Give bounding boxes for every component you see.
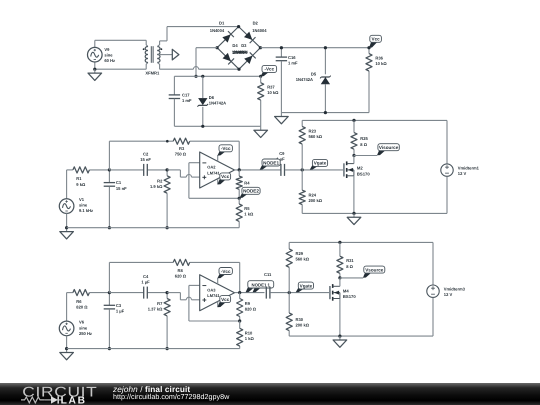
svg-text:R5: R5 bbox=[244, 206, 250, 211]
svg-text:620 Ω: 620 Ω bbox=[175, 274, 187, 279]
svg-text:560 kΩ: 560 kΩ bbox=[296, 257, 310, 262]
node label NODE2 bbox=[240, 187, 261, 198]
node label Vcc (rectifier) bbox=[369, 35, 381, 47]
svg-text:R31: R31 bbox=[346, 258, 354, 263]
resistor R10 (1 kOhm) bbox=[237, 321, 255, 349]
resistor R37 (10 kOhm) bbox=[258, 76, 280, 126]
resistor R25 (8 Ohm) bbox=[351, 120, 369, 155]
diode D4 (1N4004) bridge bottom-left bbox=[217, 43, 239, 69]
capacitor C17 (1 mF) bbox=[169, 76, 192, 126]
svg-text:R10: R10 bbox=[245, 330, 253, 335]
resistor R31 (8 Ohm) bbox=[337, 242, 355, 278]
wire C3 node up to feedback rail bbox=[108, 262, 110, 292]
svg-text:V9: V9 bbox=[104, 47, 110, 52]
diode D3 (1N4004) bridge bottom-right bbox=[232, 43, 261, 69]
svg-text:200 kΩ: 200 kΩ bbox=[296, 323, 310, 328]
wire M2 drain rail top bbox=[302, 119, 447, 122]
capacitor C11 (1 uF) bbox=[266, 287, 270, 299]
MOSFET M2 (BS170) bbox=[343, 156, 370, 214]
svg-text:1 mF: 1 mF bbox=[288, 61, 298, 66]
svg-text:D2: D2 bbox=[253, 21, 259, 26]
svg-text:D1: D1 bbox=[219, 21, 225, 26]
svg-text:10 kΩ: 10 kΩ bbox=[267, 90, 279, 95]
resistor R29 (560 kOhm) bbox=[286, 242, 310, 292]
svg-text:1 µF: 1 µF bbox=[141, 280, 150, 285]
svg-text:Vgate: Vgate bbox=[300, 283, 313, 288]
resistor R30 (200 kOhm) bbox=[286, 293, 310, 337]
svg-text:V6: V6 bbox=[79, 320, 85, 325]
svg-text:R6: R6 bbox=[76, 299, 82, 304]
transformer XFMR1 bbox=[143, 46, 163, 75]
wire R7 node to op-amp + input (hops feedback) bbox=[167, 293, 200, 300]
svg-text:C3: C3 bbox=[116, 303, 122, 308]
resistor R24 (200 kOhm) bbox=[299, 170, 323, 214]
svg-text:60 Hz: 60 Hz bbox=[104, 58, 115, 63]
ground at V6 bbox=[60, 347, 74, 360]
svg-text:Vmidterm3: Vmidterm3 bbox=[444, 286, 466, 291]
voltage source V6 (sine 250 Hz) bbox=[59, 293, 92, 349]
capacitor C2 (15 nF) bbox=[109, 151, 167, 176]
wire C9 to gate node bbox=[285, 168, 344, 171]
wire feedback to op-amp - input bbox=[189, 163, 239, 199]
svg-text:1 kΩ: 1 kΩ bbox=[244, 211, 254, 216]
wire stage1 mosfet ground rail bbox=[302, 212, 447, 215]
svg-text:R37: R37 bbox=[267, 85, 275, 90]
svg-text:NODE2: NODE2 bbox=[243, 189, 259, 194]
node label Vcc at OA2 bbox=[217, 173, 230, 185]
svg-text:BS170: BS170 bbox=[357, 171, 370, 176]
node label Visource bbox=[377, 144, 399, 156]
node bridge left bbox=[216, 46, 219, 49]
svg-text:1N4004: 1N4004 bbox=[233, 50, 248, 55]
svg-text:560 kΩ: 560 kΩ bbox=[309, 134, 323, 139]
svg-text:9 kΩ: 9 kΩ bbox=[76, 182, 86, 187]
svg-text:820 Ω: 820 Ω bbox=[76, 305, 88, 310]
wire feedback rail down to output (stage 2) bbox=[239, 262, 241, 292]
svg-text:1N4742A: 1N4742A bbox=[209, 100, 226, 105]
svg-text:sine: sine bbox=[79, 203, 88, 208]
wire V9 top to XFMR1 primary bbox=[95, 40, 148, 46]
svg-text:Vcc: Vcc bbox=[221, 174, 230, 179]
node label Vgate (stage 1) bbox=[310, 159, 328, 169]
svg-text:R29: R29 bbox=[296, 251, 304, 256]
svg-text:8 Ω: 8 Ω bbox=[346, 264, 353, 269]
resistor R2 (1.9 kOhm) bbox=[150, 168, 170, 229]
svg-text:R30: R30 bbox=[296, 317, 304, 322]
wire negative rail bbox=[174, 75, 262, 78]
voltage source Vmidterm3 (12 V) bbox=[427, 242, 466, 336]
svg-text:NODE1 1: NODE1 1 bbox=[252, 282, 271, 287]
wire stage1 ground rail bbox=[67, 227, 240, 229]
node M4 drain junction bbox=[338, 276, 363, 279]
svg-text:Vcc: Vcc bbox=[372, 37, 381, 42]
svg-text:1.9 kΩ: 1.9 kΩ bbox=[150, 184, 163, 189]
svg-text:Vgate: Vgate bbox=[314, 161, 327, 166]
node label -Vcc (rectifier) bbox=[261, 65, 277, 76]
svg-text:1N4004: 1N4004 bbox=[252, 28, 267, 33]
resistor R23 (560 kOhm) bbox=[299, 120, 323, 169]
node label NODE1 (stage 2) bbox=[246, 281, 274, 293]
svg-text:200 kΩ: 200 kΩ bbox=[309, 198, 323, 203]
node bridge right bbox=[259, 46, 262, 49]
MOSFET M4 (BS170) bbox=[329, 278, 356, 336]
svg-text:15 nF: 15 nF bbox=[140, 157, 151, 162]
node bridge top bbox=[237, 25, 240, 28]
wire feedback rail down to output bbox=[238, 141, 240, 170]
svg-text:8 Ω: 8 Ω bbox=[360, 142, 367, 147]
svg-text:D4: D4 bbox=[232, 43, 238, 48]
svg-text:R8: R8 bbox=[178, 268, 184, 273]
svg-text:R25: R25 bbox=[360, 136, 368, 141]
svg-text:R2: R2 bbox=[157, 178, 163, 183]
wire V9 bottom to XFMR1 primary bbox=[93, 63, 148, 71]
resistor R9 (820 Ohm) bbox=[237, 293, 257, 323]
svg-text:1.37 kΩ: 1.37 kΩ bbox=[148, 307, 163, 312]
svg-text:1 µF: 1 µF bbox=[116, 309, 125, 314]
wire C11 to gate node bbox=[270, 291, 330, 294]
voltage source V9 (sine 60 Hz) bbox=[88, 40, 116, 69]
svg-text:OA2: OA2 bbox=[207, 165, 216, 170]
svg-text:-Vcc: -Vcc bbox=[221, 269, 231, 274]
svg-text:1 mF: 1 mF bbox=[182, 98, 192, 103]
svg-text:V1: V1 bbox=[79, 197, 85, 202]
ground at V9 bbox=[88, 69, 102, 80]
svg-text:M4: M4 bbox=[343, 288, 349, 293]
svg-text:R36: R36 bbox=[375, 55, 383, 60]
svg-text:Visource: Visource bbox=[379, 145, 399, 150]
capacitor C4 (1 uF) bbox=[109, 274, 167, 299]
svg-text:R3: R3 bbox=[179, 146, 185, 151]
resistor R36 (10 kOhm) bbox=[366, 46, 387, 113]
node label Vgate (stage 2) bbox=[296, 282, 314, 292]
svg-text:C2: C2 bbox=[143, 151, 149, 156]
wire bridge right to positive rail bbox=[260, 47, 369, 49]
op-amp OA2 (LM741) bbox=[200, 152, 235, 188]
resistor R1 (9 kOhm) bbox=[67, 167, 110, 187]
svg-text:15 nF: 15 nF bbox=[116, 186, 127, 191]
resistor R7 (1.37 kOhm) bbox=[148, 291, 170, 350]
svg-text:R9: R9 bbox=[245, 301, 251, 306]
CircuitLab logo bbox=[20, 383, 120, 405]
svg-text:sine: sine bbox=[79, 325, 88, 330]
svg-text:1N4742A: 1N4742A bbox=[296, 77, 313, 82]
wire XFMR1 secondary bottom to bridge (hops over wire) bbox=[157, 63, 239, 70]
ground at XFMR1 center tap bbox=[158, 49, 179, 60]
ground at V1 bbox=[60, 226, 74, 239]
wire positive regulator bottom rail bbox=[281, 111, 369, 114]
svg-text:LM741: LM741 bbox=[207, 170, 220, 175]
capacitor C16 (1 mF) bbox=[276, 46, 298, 113]
wire C1 node up to feedback rail bbox=[108, 141, 110, 170]
svg-text:10 kΩ: 10 kΩ bbox=[375, 61, 387, 66]
svg-text:M2: M2 bbox=[357, 166, 363, 171]
wire negative regulator bottom rail bbox=[174, 125, 260, 128]
svg-text:820 Ω: 820 Ω bbox=[245, 307, 257, 312]
svg-text:OA3: OA3 bbox=[207, 287, 216, 292]
svg-text:D3: D3 bbox=[241, 43, 247, 48]
svg-text:-Vcc: -Vcc bbox=[221, 146, 231, 151]
zener diode D6 (1N4742A) bbox=[198, 76, 227, 126]
node label Vsource bbox=[363, 266, 385, 278]
svg-text:C4: C4 bbox=[143, 274, 149, 279]
capacitor C1 (15 nF) bbox=[104, 168, 127, 229]
svg-text:1 kΩ: 1 kΩ bbox=[245, 336, 255, 341]
node label -Vcc at OA3 bbox=[217, 268, 232, 285]
voltage source V1 (sine 9.1 kHz) bbox=[59, 170, 93, 228]
svg-text:LM741: LM741 bbox=[207, 293, 220, 298]
wire OA2 output bbox=[235, 168, 281, 171]
resistor R6 (820 Ohm) bbox=[67, 290, 110, 310]
wire R2 node to op-amp + input (hops feedback) bbox=[167, 170, 200, 177]
svg-text:12 V: 12 V bbox=[458, 171, 467, 176]
svg-text:C1: C1 bbox=[116, 180, 122, 185]
svg-text:BS170: BS170 bbox=[343, 294, 356, 299]
capacitor C9 (1 uF) bbox=[281, 164, 285, 176]
svg-text:D6: D6 bbox=[209, 95, 215, 100]
resistor R4 bbox=[236, 170, 250, 198]
resistor R3 (750 Ohm) feedback bbox=[109, 138, 239, 156]
zener diode D5 (1N4742A) bbox=[296, 46, 331, 113]
node label -Vcc at OA2 bbox=[217, 145, 232, 162]
wire XFMR1 secondary top to bridge bbox=[157, 27, 238, 47]
resistor R5 (1 kOhm) bbox=[236, 198, 254, 227]
svg-text:9.1 kHz: 9.1 kHz bbox=[79, 208, 93, 213]
svg-text:12 V: 12 V bbox=[444, 292, 453, 297]
ground at M2 source bbox=[347, 213, 361, 224]
svg-text:Vsource: Vsource bbox=[365, 267, 384, 272]
wire M4 drain rail top bbox=[289, 241, 433, 244]
svg-text:750 Ω: 750 Ω bbox=[175, 152, 187, 157]
wire bridge left to negative rail bbox=[194, 48, 217, 78]
svg-text:R24: R24 bbox=[309, 192, 317, 197]
svg-text:XFMR1: XFMR1 bbox=[145, 71, 160, 76]
diode D2 (1N4004) bridge top-right bbox=[239, 21, 268, 48]
svg-text:Vcc: Vcc bbox=[221, 297, 230, 302]
wire stage2 ground rail bbox=[67, 348, 240, 350]
svg-text:sine: sine bbox=[104, 53, 113, 58]
node bridge bottom bbox=[237, 68, 240, 71]
svg-text:-Vcc: -Vcc bbox=[264, 67, 274, 72]
svg-text:NODE1: NODE1 bbox=[263, 160, 279, 165]
wire stage2 mosfet ground rail bbox=[289, 335, 433, 338]
capacitor C11 (1 uF) label bbox=[264, 272, 272, 277]
ground at C16 bbox=[275, 113, 289, 124]
node label NODE1 (stage 1) bbox=[260, 151, 285, 169]
svg-text:R1: R1 bbox=[76, 176, 82, 181]
svg-text:250 Hz: 250 Hz bbox=[79, 331, 92, 336]
svg-text:R7: R7 bbox=[157, 301, 163, 306]
wire feedback to op-amp - input (stage 2) bbox=[189, 285, 240, 321]
wire OA3 output bbox=[235, 291, 265, 294]
svg-text:C11: C11 bbox=[264, 272, 272, 277]
diode D1 (1N4004) bridge top-left bbox=[210, 21, 239, 48]
resistor R8 (620 Ohm) feedback bbox=[109, 259, 239, 278]
ground at R37 bbox=[254, 126, 268, 137]
svg-text:LAB: LAB bbox=[61, 395, 87, 405]
capacitor C3 (1 uF) bbox=[104, 291, 125, 350]
node label Vcc at OA3 bbox=[217, 296, 230, 308]
node M2 drain junction bbox=[352, 154, 377, 157]
svg-text:D5: D5 bbox=[311, 71, 317, 76]
footer CircuitLab banner bbox=[0, 383, 540, 405]
op-amp OA3 (LM741) bbox=[200, 275, 235, 311]
svg-text:1N4004: 1N4004 bbox=[210, 28, 225, 33]
svg-text:Vmidterm1: Vmidterm1 bbox=[458, 165, 480, 170]
svg-text:R23: R23 bbox=[309, 129, 317, 134]
svg-text:C16: C16 bbox=[288, 55, 296, 60]
voltage source Vmidterm1 (12 V) bbox=[441, 120, 480, 213]
ground at M4 source bbox=[333, 336, 347, 347]
node NODE2 junction bbox=[238, 197, 241, 200]
svg-text:R4: R4 bbox=[244, 181, 250, 186]
svg-text:C17: C17 bbox=[182, 92, 190, 97]
